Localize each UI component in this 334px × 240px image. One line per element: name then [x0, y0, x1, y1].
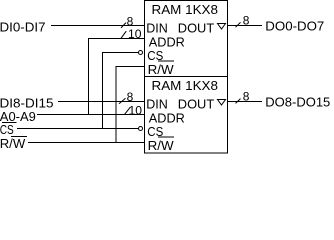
svg-text:R/W: R/W	[0, 136, 26, 151]
svg-text:10: 10	[129, 103, 143, 117]
svg-text:RAM 1KX8: RAM 1KX8	[152, 2, 219, 17]
svg-text:DOUT: DOUT	[178, 20, 214, 35]
svg-text:DOUT: DOUT	[178, 96, 214, 111]
svg-text:DI0-DI7: DI0-DI7	[0, 20, 46, 35]
svg-text:CS: CS	[0, 122, 14, 137]
svg-text:DO8-DO15: DO8-DO15	[265, 95, 330, 110]
svg-text:CS: CS	[147, 124, 163, 139]
svg-text:R/W: R/W	[148, 62, 175, 77]
svg-text:DI8-DI15: DI8-DI15	[0, 95, 54, 110]
svg-text:R/W: R/W	[148, 138, 175, 153]
svg-text:8: 8	[243, 13, 250, 27]
svg-text:DIN: DIN	[146, 20, 168, 35]
svg-text:10: 10	[128, 27, 142, 41]
svg-text:DIN: DIN	[146, 96, 168, 111]
svg-text:RAM 1KX8: RAM 1KX8	[152, 78, 219, 93]
svg-text:8: 8	[127, 90, 134, 104]
svg-text:DO0-DO7: DO0-DO7	[265, 19, 324, 34]
svg-text:CS: CS	[147, 48, 163, 63]
svg-text:8: 8	[243, 89, 250, 103]
